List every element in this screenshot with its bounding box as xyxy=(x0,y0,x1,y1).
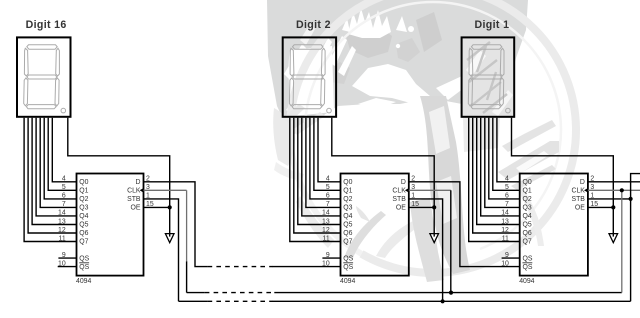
wire DS3 common to ground node xyxy=(512,118,614,237)
svg-text:CLK: CLK xyxy=(127,188,141,195)
bus CLK gray clock net solid xyxy=(187,292,205,294)
wire U2 STB (pin 1) xyxy=(409,199,443,301)
pin QS U2 (pin 9) xyxy=(322,252,353,262)
ground GND1 xyxy=(165,233,174,243)
svg-text:STB: STB xyxy=(571,196,585,203)
wire U1 STB (pin 1) xyxy=(144,199,179,301)
clock input arrowhead U3 CLK xyxy=(584,188,587,192)
pin QS-bar U1 (pin 10) xyxy=(58,260,90,270)
seven-segment display DS1 (Digit 16) xyxy=(17,37,71,116)
svg-text:OE: OE xyxy=(396,205,406,212)
pin numbers U3 right (2 3 1 15) xyxy=(590,176,598,209)
svg-text:Q0: Q0 xyxy=(343,179,352,186)
bus STB solid run to right riser xyxy=(273,300,631,302)
wire DS2 pin1 to U2 Q7 xyxy=(290,118,341,242)
svg-text:Digit 1: Digit 1 xyxy=(475,19,510,31)
svg-text:Q3: Q3 xyxy=(343,205,352,212)
svg-text:4: 4 xyxy=(62,176,66,183)
junction U2 CLK drop on bus xyxy=(449,291,453,295)
junction U1 OE-common-ground xyxy=(168,205,172,209)
ground GND2 xyxy=(430,233,439,243)
svg-text:Q2: Q2 xyxy=(523,196,532,203)
svg-text:4: 4 xyxy=(326,176,330,183)
svg-text:Digit 16: Digit 16 xyxy=(26,19,67,31)
wire U2 D (pin 2) to U3 QS-bar xyxy=(409,182,520,267)
svg-text:OE: OE xyxy=(131,205,141,212)
svg-text:Q4: Q4 xyxy=(343,213,352,220)
svg-text:Q3: Q3 xyxy=(523,205,532,212)
wire DS3 pin5 to U3 Q3 xyxy=(485,118,520,208)
wire U1 D (pin 2) to U2 QS-bar xyxy=(144,182,208,267)
wire U1 CLK (pin 3) gray clock net xyxy=(144,189,187,191)
svg-text:QS: QS xyxy=(79,255,89,262)
pin QS-bar U3 (pin 10) xyxy=(501,260,533,270)
seven-segment display DS2 (Digit 2) xyxy=(283,37,336,116)
pin labels U1 D CLK STB OE xyxy=(127,179,141,212)
svg-text:10: 10 xyxy=(501,260,509,267)
pin labels U3 Q0-Q7 xyxy=(523,179,532,246)
wire U2 CLK (pin 3) gray clock net xyxy=(409,189,451,191)
IC U2 4094 shift register xyxy=(341,174,409,276)
wire DS1 common to ground node xyxy=(68,118,170,237)
svg-text:QS: QS xyxy=(523,264,533,271)
pin labels U1 Q0-Q7 xyxy=(79,179,88,246)
bus STB solid xyxy=(179,300,208,302)
svg-text:Q6: Q6 xyxy=(79,230,88,237)
wire DS1 pin1 to U1 Q7 xyxy=(24,118,76,242)
wire DS1 pin4 to U1 Q4 xyxy=(36,118,76,216)
svg-text:Q3: Q3 xyxy=(79,205,88,212)
svg-text:Q2: Q2 xyxy=(343,196,352,203)
svg-text:12: 12 xyxy=(501,227,509,234)
svg-text:6: 6 xyxy=(326,193,330,200)
svg-text:Q7: Q7 xyxy=(343,239,352,246)
wire DS1 pin3 to U1 Q5 xyxy=(32,118,76,225)
svg-text:4094: 4094 xyxy=(340,278,355,285)
IC U1 4094 shift register xyxy=(77,174,144,276)
wire U1 OE (pin 15) to ground node xyxy=(144,206,170,208)
pin labels U2 Q0-Q7 xyxy=(343,179,352,246)
wire DS1 pin7 to U1 Q1 xyxy=(48,118,76,191)
svg-text:6: 6 xyxy=(505,193,509,200)
wire U2 OE (pin 15) to ground node xyxy=(409,206,434,208)
svg-text:Q6: Q6 xyxy=(523,230,532,237)
wire DS3 pin3 to U3 Q5 xyxy=(477,118,520,225)
wire DS3 pin6 to U3 Q2 xyxy=(489,118,520,199)
svg-text:Q0: Q0 xyxy=(523,179,532,186)
wire DS2 pin8 to U2 Q0 xyxy=(318,118,341,182)
svg-text:11: 11 xyxy=(323,235,330,242)
svg-text:Q7: Q7 xyxy=(79,239,88,246)
svg-text:STB: STB xyxy=(127,196,141,203)
svg-text:Q4: Q4 xyxy=(523,213,532,220)
svg-text:7: 7 xyxy=(505,201,509,208)
svg-text:CLK: CLK xyxy=(571,188,585,195)
svg-text:12: 12 xyxy=(58,227,66,234)
svg-text:4094: 4094 xyxy=(76,278,91,285)
wire CLK drop U1 xyxy=(186,190,188,262)
pin QS U3 (pin 9) xyxy=(502,252,533,262)
svg-text:Q6: Q6 xyxy=(343,230,352,237)
wire DS3 pin2 to U3 Q6 xyxy=(473,118,520,233)
wire DS2 pin2 to U2 Q6 xyxy=(294,118,341,233)
svg-text:7: 7 xyxy=(326,201,330,208)
wire U3 STB (pin 1) xyxy=(588,198,631,200)
svg-text:Q1: Q1 xyxy=(79,188,88,195)
pin numbers U2 right (2 3 1 15) xyxy=(411,176,419,209)
ground GND3 xyxy=(609,233,618,243)
pin numbers U1 right (2 3 1 15) xyxy=(146,176,154,209)
pin labels U2 D CLK STB OE xyxy=(392,179,406,212)
bus QS-bar chain dashed break xyxy=(208,266,273,268)
svg-text:Digit 2: Digit 2 xyxy=(296,19,331,31)
svg-text:13: 13 xyxy=(501,218,509,225)
svg-text:9: 9 xyxy=(326,252,330,259)
svg-text:5: 5 xyxy=(326,184,330,191)
svg-text:Q5: Q5 xyxy=(79,222,88,229)
svg-text:7: 7 xyxy=(62,201,66,208)
pin QS-bar U2 (pin 10) xyxy=(322,260,354,270)
junction U3 STB riser xyxy=(629,197,633,201)
junction U3 OE-common-ground xyxy=(611,205,615,209)
svg-text:14: 14 xyxy=(501,210,509,217)
svg-text:11: 11 xyxy=(59,235,66,242)
pin numbers U3 left (4 5 6 7 14 13 12 11) xyxy=(501,176,509,243)
svg-text:10: 10 xyxy=(58,260,66,267)
svg-text:13: 13 xyxy=(58,218,66,225)
bus CLK solid run to right riser xyxy=(274,292,622,294)
wire CLK drop U2 xyxy=(450,190,452,292)
svg-text:QS: QS xyxy=(79,264,89,271)
wire DS2 pin3 to U2 Q5 xyxy=(298,118,341,225)
svg-text:QS: QS xyxy=(343,255,353,262)
pin QS U1 (pin 9) xyxy=(58,252,89,262)
wire DS1 pin2 to U1 Q6 xyxy=(28,118,76,233)
svg-text:Q1: Q1 xyxy=(523,188,532,195)
svg-text:14: 14 xyxy=(322,210,330,217)
bus QS-bar chain solid to U2 xyxy=(273,266,341,268)
svg-text:Q5: Q5 xyxy=(523,222,532,229)
svg-text:D: D xyxy=(136,179,141,186)
svg-text:9: 9 xyxy=(62,252,66,259)
svg-text:9: 9 xyxy=(505,252,509,259)
svg-text:Q7: Q7 xyxy=(523,239,532,246)
wire U3 D (pin 2) to edge xyxy=(588,181,640,183)
svg-text:11: 11 xyxy=(502,235,509,242)
junction U2 OE-common-ground xyxy=(432,205,436,209)
clock input arrowhead U2 CLK xyxy=(405,188,408,192)
junction U3 CLK riser xyxy=(620,188,624,192)
svg-text:5: 5 xyxy=(62,184,66,191)
pin numbers U2 left (4 5 6 7 14 13 12 11) xyxy=(322,176,330,243)
wire DS2 pin7 to U2 Q1 xyxy=(314,118,341,191)
svg-text:Q4: Q4 xyxy=(79,213,88,220)
wire DS1 pin8 to U1 Q0 xyxy=(52,118,76,182)
wire U3 CLK (pin 3) gray clock net to edge xyxy=(588,189,640,191)
svg-text:CLK: CLK xyxy=(392,188,406,195)
svg-text:OE: OE xyxy=(575,205,585,212)
svg-text:4: 4 xyxy=(505,176,509,183)
wire DS2 common to ground node xyxy=(332,118,434,237)
wire DS2 pin5 to U2 Q3 xyxy=(306,118,341,208)
riser STB to U3 and top exit xyxy=(631,174,640,302)
wire U3 OE (pin 15) to ground node xyxy=(588,206,613,208)
svg-text:Q0: Q0 xyxy=(79,179,88,186)
pin numbers U1 left (4 5 6 7 14 13 12 11) xyxy=(58,176,66,243)
svg-text:D: D xyxy=(401,179,406,186)
svg-text:QS: QS xyxy=(523,255,533,262)
junction U2 STB drop on bus xyxy=(441,299,445,303)
wire DS2 pin4 to U2 Q4 xyxy=(302,118,341,216)
svg-text:4094: 4094 xyxy=(519,278,534,285)
svg-text:Q2: Q2 xyxy=(79,196,88,203)
bus STB dashed break xyxy=(208,300,273,302)
svg-text:D: D xyxy=(580,179,585,186)
seven-segment display DS3 (Digit 1) xyxy=(462,37,515,116)
riser CLK to U3 (gray) xyxy=(621,190,623,292)
wire DS1 pin5 to U1 Q3 xyxy=(40,118,76,208)
wire DS3 pin8 to U3 Q0 xyxy=(497,118,520,182)
pin labels U3 D CLK STB OE xyxy=(571,179,585,212)
wire DS3 pin1 to U3 Q7 xyxy=(469,118,520,242)
svg-text:14: 14 xyxy=(58,210,66,217)
wire DS1 pin6 to U1 Q2 xyxy=(44,118,76,199)
clock input arrowhead U1 CLK xyxy=(140,188,143,192)
svg-text:Q5: Q5 xyxy=(343,222,352,229)
svg-text:QS: QS xyxy=(343,264,353,271)
svg-text:6: 6 xyxy=(62,193,66,200)
svg-text:5: 5 xyxy=(505,184,509,191)
svg-text:STB: STB xyxy=(392,196,406,203)
svg-text:13: 13 xyxy=(322,218,330,225)
svg-text:Q1: Q1 xyxy=(343,188,352,195)
wire DS3 pin7 to U3 Q1 xyxy=(493,118,520,191)
IC U3 4094 shift register xyxy=(520,174,588,276)
svg-text:12: 12 xyxy=(322,227,330,234)
wire DS3 pin4 to U3 Q4 xyxy=(481,118,520,216)
wire DS2 pin6 to U2 Q2 xyxy=(310,118,341,199)
bus CLK dashed break xyxy=(205,292,275,294)
